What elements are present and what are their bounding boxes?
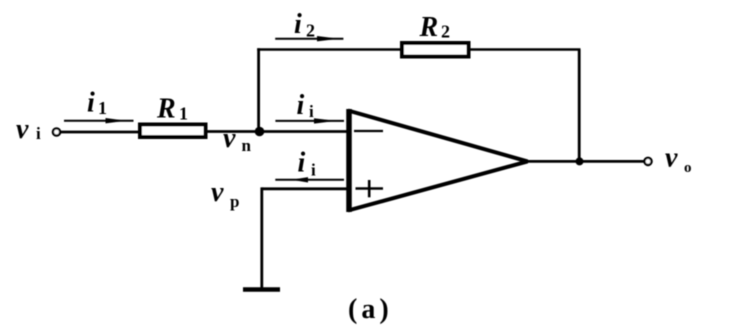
svg-text:v: v bbox=[211, 177, 224, 208]
svg-text:2: 2 bbox=[306, 21, 315, 41]
svg-text:R: R bbox=[419, 12, 439, 43]
svg-text:o: o bbox=[684, 160, 692, 176]
svg-text:i: i bbox=[294, 9, 302, 40]
svg-text:i: i bbox=[309, 102, 314, 121]
svg-text:1: 1 bbox=[98, 98, 107, 118]
svg-text:i: i bbox=[297, 90, 305, 121]
svg-text:v: v bbox=[16, 114, 29, 145]
svg-text:(a): (a) bbox=[348, 294, 393, 325]
svg-text:i: i bbox=[298, 148, 306, 179]
svg-text:i: i bbox=[36, 124, 41, 143]
svg-text:i: i bbox=[311, 161, 316, 180]
svg-text:R: R bbox=[156, 94, 176, 125]
svg-text:1: 1 bbox=[179, 104, 188, 124]
svg-text:p: p bbox=[230, 192, 239, 211]
svg-text:v: v bbox=[223, 123, 236, 154]
svg-text:v: v bbox=[665, 143, 678, 174]
svg-text:2: 2 bbox=[441, 22, 450, 42]
svg-text:n: n bbox=[242, 136, 252, 155]
svg-text:i: i bbox=[87, 88, 95, 119]
